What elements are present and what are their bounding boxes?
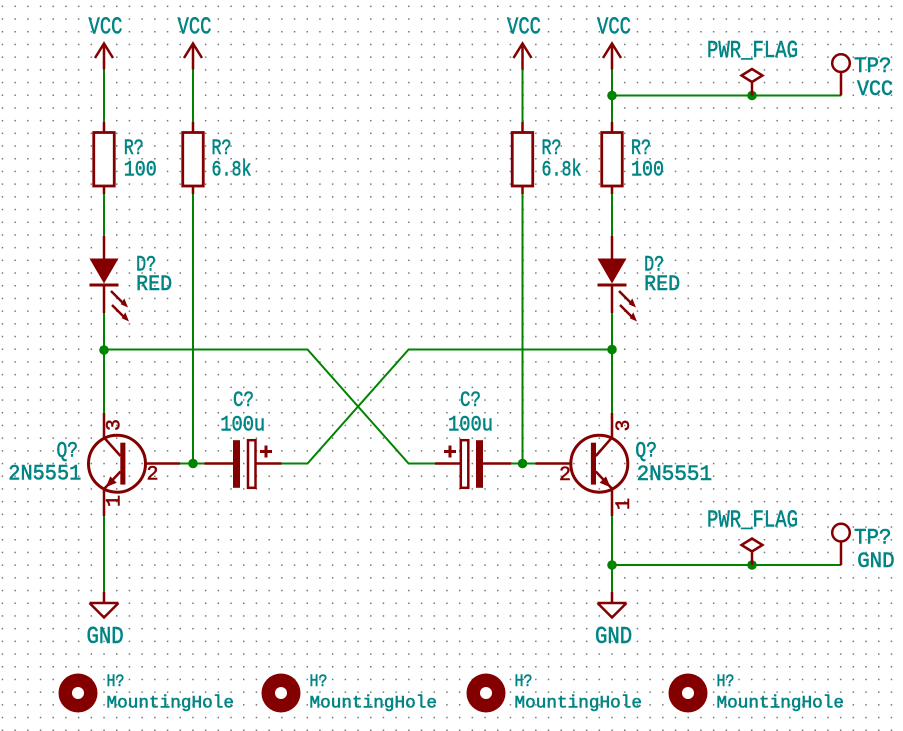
svg-text:VCC: VCC xyxy=(178,15,212,42)
svg-text:100: 100 xyxy=(124,158,157,183)
svg-text:MountingHole: MountingHole xyxy=(310,694,438,714)
svg-text:RED: RED xyxy=(136,272,172,297)
svg-text:3: 3 xyxy=(613,419,636,431)
svg-text:6.8k: 6.8k xyxy=(212,158,252,183)
svg-text:H?: H? xyxy=(310,672,328,692)
svg-text:1: 1 xyxy=(613,498,636,510)
svg-text:3: 3 xyxy=(104,419,127,431)
svg-text:Q?: Q? xyxy=(635,439,657,464)
svg-text:VCC: VCC xyxy=(507,15,541,42)
svg-text:GND: GND xyxy=(857,549,895,574)
svg-text:6.8k: 6.8k xyxy=(542,158,582,183)
svg-text:100: 100 xyxy=(631,158,664,183)
svg-text:2: 2 xyxy=(559,464,571,487)
svg-text:VCC: VCC xyxy=(857,77,893,102)
svg-text:VCC: VCC xyxy=(89,15,123,42)
svg-text:GND: GND xyxy=(87,624,124,651)
svg-text:TP?: TP? xyxy=(854,54,892,79)
svg-text:GND: GND xyxy=(595,624,632,651)
svg-text:2N5551: 2N5551 xyxy=(637,462,713,487)
svg-text:VCC: VCC xyxy=(597,15,631,42)
svg-text:100u: 100u xyxy=(220,413,265,438)
svg-text:RED: RED xyxy=(644,272,680,297)
svg-text:Q?: Q? xyxy=(57,439,79,464)
svg-text:2N5551: 2N5551 xyxy=(8,462,81,487)
svg-text:H?: H? xyxy=(515,672,533,692)
svg-text:MountingHole: MountingHole xyxy=(107,694,235,714)
svg-text:TP?: TP? xyxy=(854,526,892,551)
svg-text:1: 1 xyxy=(104,495,127,507)
svg-text:100u: 100u xyxy=(448,413,493,438)
svg-text:C?: C? xyxy=(460,388,481,413)
svg-text:2: 2 xyxy=(147,464,159,487)
svg-text:H?: H? xyxy=(107,672,125,692)
svg-text:MountingHole: MountingHole xyxy=(515,694,643,714)
svg-text:PWR_FLAG: PWR_FLAG xyxy=(707,508,798,535)
svg-text:C?: C? xyxy=(233,388,254,413)
svg-text:PWR_FLAG: PWR_FLAG xyxy=(707,38,798,65)
svg-text:H?: H? xyxy=(717,672,735,692)
svg-text:MountingHole: MountingHole xyxy=(717,694,845,714)
